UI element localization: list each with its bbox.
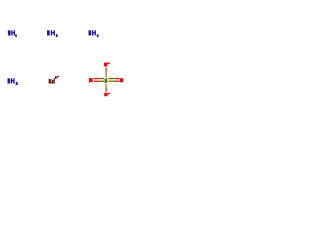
oxygen O- bottom [104,93,107,96]
oxygen O right (double bonded) [120,78,123,82]
oxygen O- top [104,63,107,67]
ammonium ion NH4 top-right [89,30,99,37]
minus charge of top O [107,62,109,64]
double bond S=O left: O-half red [94,78,99,79]
double bond S=O right: O-half red [115,78,119,79]
double bond S=O left: S-half olive [99,78,104,79]
single bond S-O top: S-half olive [106,72,107,78]
single bond S-O bottom: O-half red [106,88,107,92]
single bond S-O top: O-half red [106,67,107,71]
metal cation Eu3+ [49,76,59,84]
minus charge of bottom O [108,93,110,95]
single bond S-O bottom: S-half olive [106,84,107,88]
double bond S=O right: S-half olive [109,78,116,79]
ammonium ion NH4 mid-left [8,78,18,85]
sulfur S center [105,78,108,83]
ammonium ion NH4 top-middle [47,30,58,37]
oxygen O left (double bonded) [89,78,93,82]
ammonium ion NH4 top-left [8,30,17,37]
